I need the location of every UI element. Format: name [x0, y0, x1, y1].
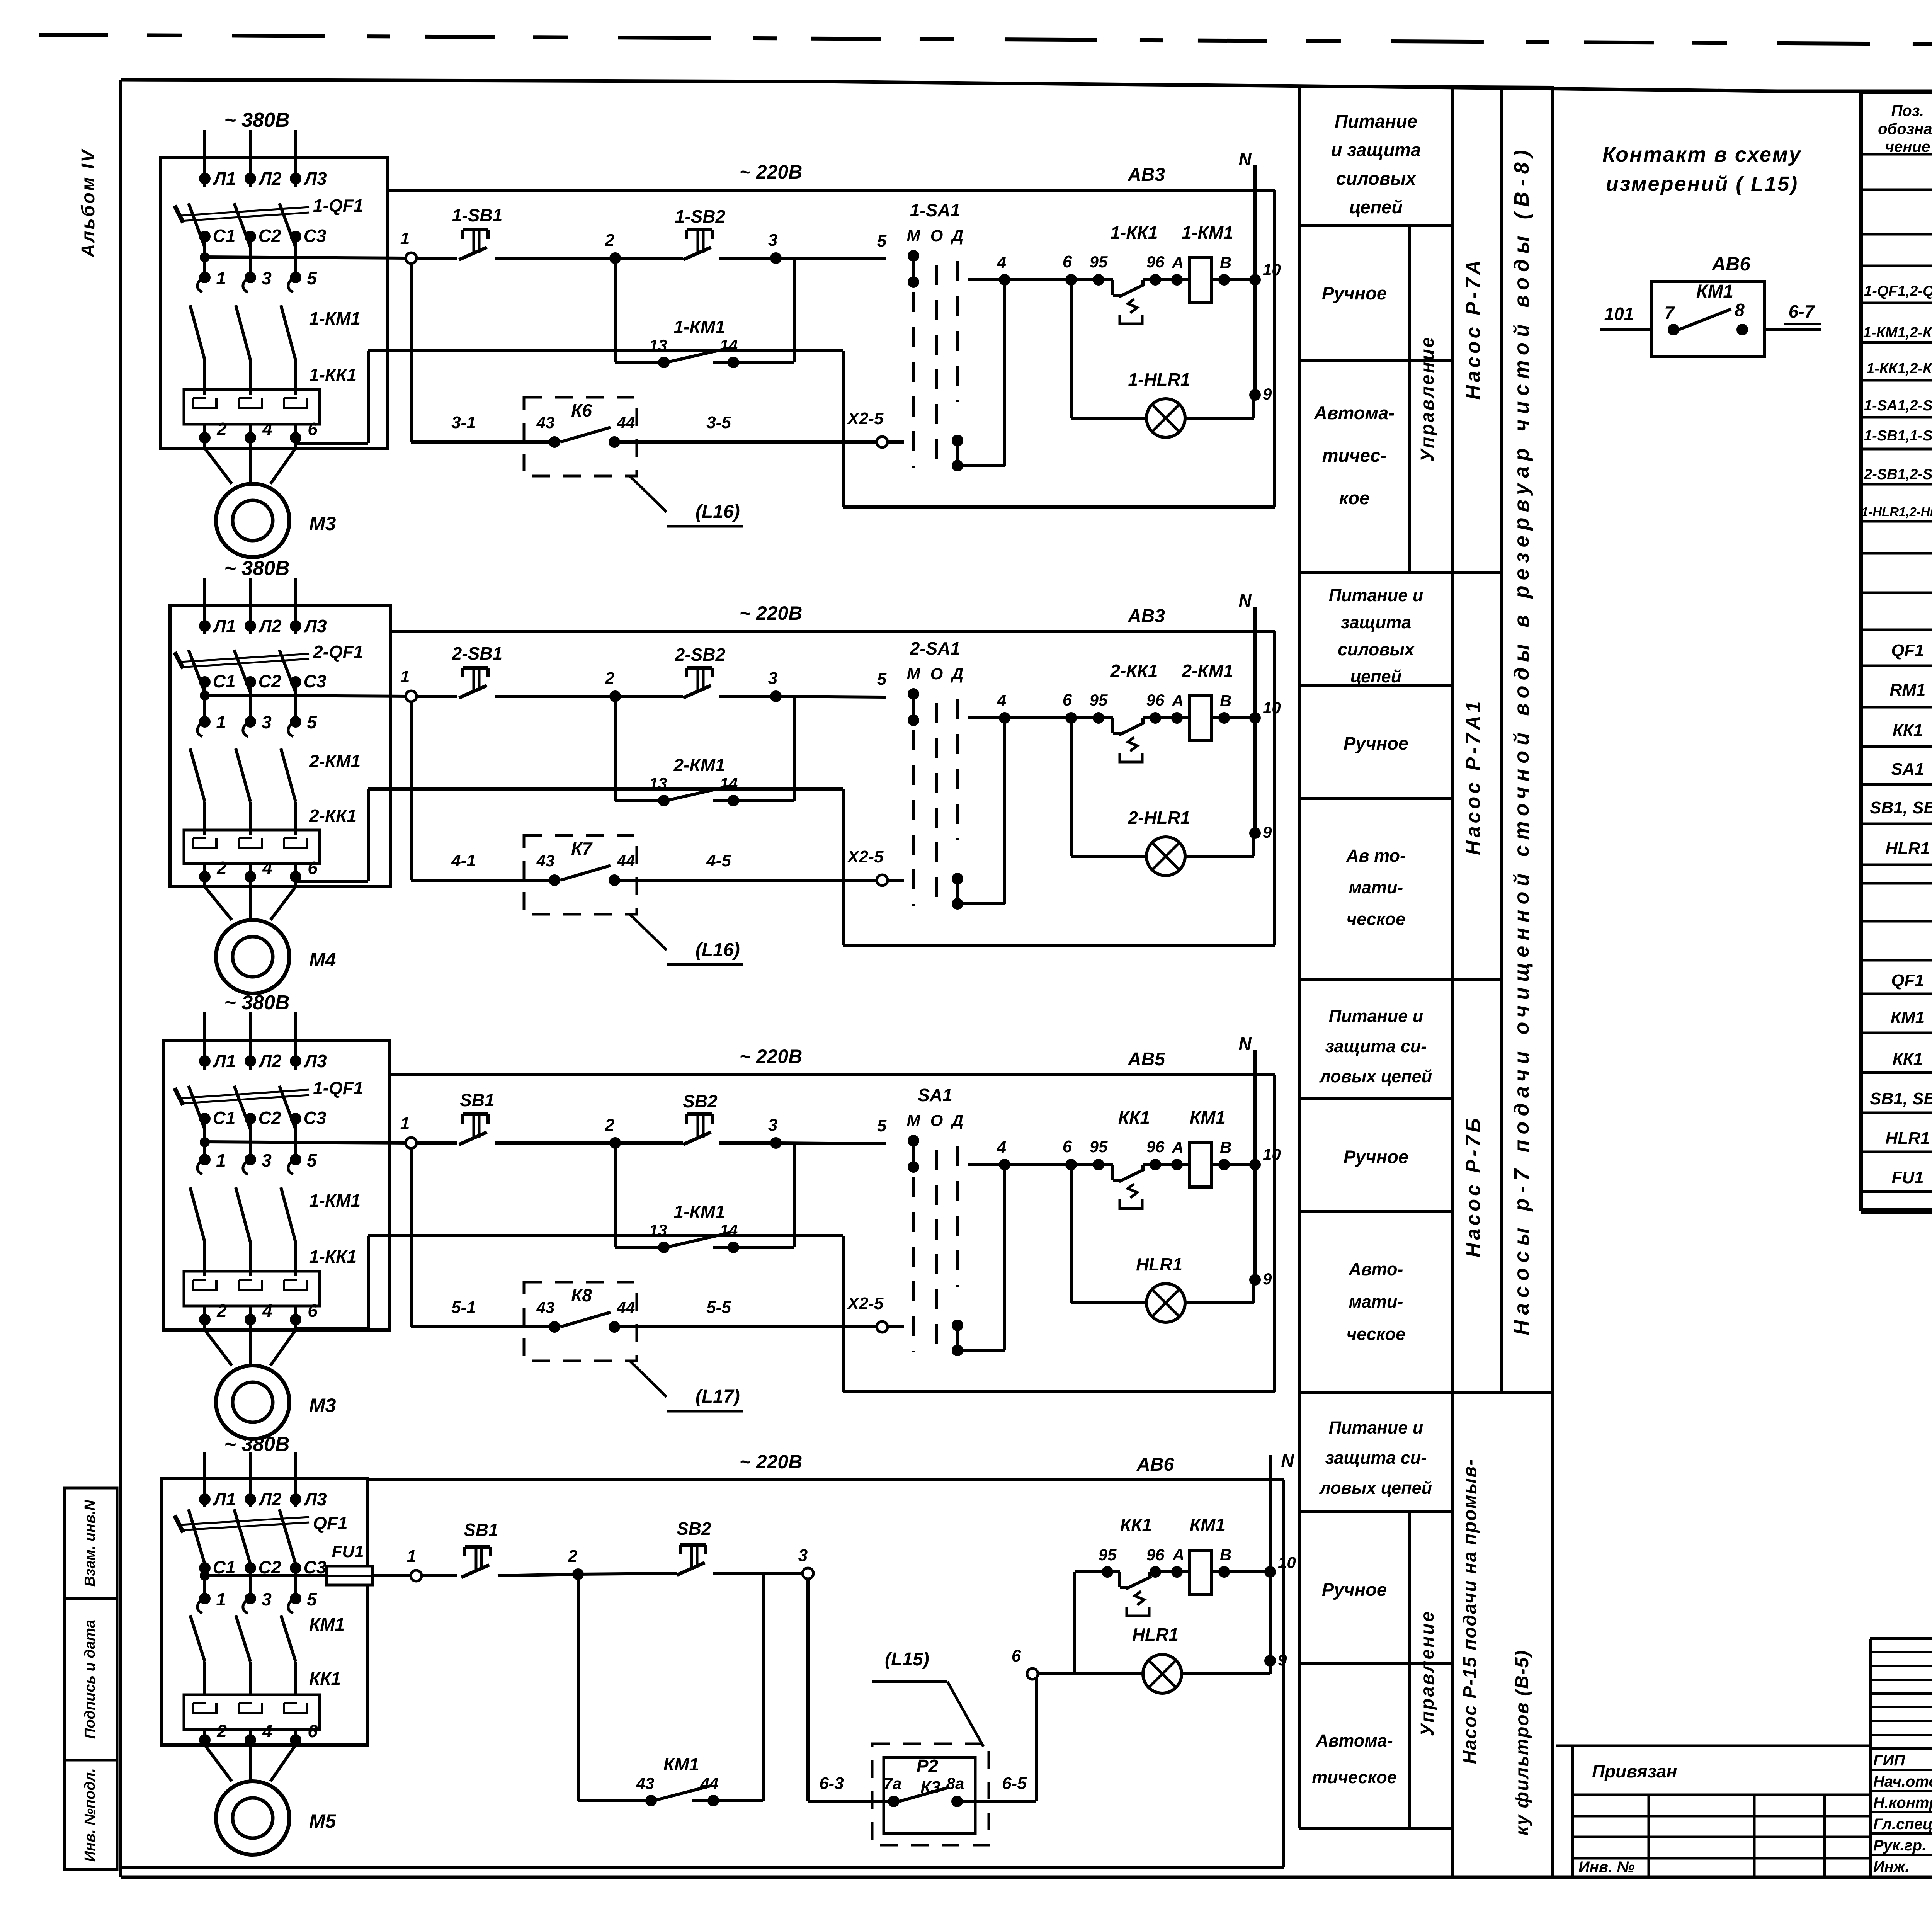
svg-text:2-QF1: 2-QF1	[313, 642, 363, 662]
svg-text:С2: С2	[259, 671, 281, 691]
svg-text:А: А	[1172, 1546, 1184, 1564]
svg-text:ческое: ческое	[1347, 1324, 1405, 1344]
svg-text:3-1: 3-1	[451, 413, 476, 432]
svg-text:К3: К3	[920, 1778, 940, 1797]
svg-text:О: О	[930, 1111, 943, 1129]
svg-text:1-SA1,2-SA1: 1-SA1,2-SA1	[1864, 398, 1932, 414]
svg-text:2: 2	[605, 1116, 615, 1134]
svg-text:Насос Р-7А: Насос Р-7А	[1462, 257, 1485, 400]
svg-text:SB2: SB2	[683, 1091, 718, 1111]
svg-text:FU1: FU1	[1891, 1168, 1923, 1187]
svg-text:Л1: Л1	[213, 1489, 236, 1509]
svg-text:2-КМ1: 2-КМ1	[309, 751, 361, 771]
svg-text:96: 96	[1146, 1546, 1165, 1564]
svg-text:силовых: силовых	[1336, 168, 1417, 189]
svg-text:44: 44	[617, 852, 635, 870]
svg-text:2: 2	[216, 419, 227, 439]
svg-text:~ 380В: ~ 380В	[224, 1433, 289, 1456]
svg-text:измерений ( L15): измерений ( L15)	[1606, 172, 1798, 196]
svg-text:КК1: КК1	[1893, 721, 1923, 740]
svg-text:6: 6	[308, 1301, 318, 1321]
svg-text:Взам. инв.N: Взам. инв.N	[82, 1499, 98, 1587]
svg-text:1-SA1: 1-SA1	[910, 200, 960, 220]
svg-text:9: 9	[1278, 1651, 1287, 1669]
svg-text:Питание: Питание	[1335, 111, 1417, 131]
svg-text:цепей: цепей	[1349, 197, 1403, 217]
svg-text:3: 3	[798, 1546, 808, 1565]
svg-text:Д: Д	[951, 226, 963, 245]
svg-text:2-SB2: 2-SB2	[675, 645, 726, 665]
svg-text:SB1: SB1	[460, 1090, 494, 1110]
svg-text:6: 6	[1063, 1137, 1072, 1156]
svg-text:7: 7	[1664, 303, 1675, 323]
svg-text:Насосы р-7 подачи очищенной: Насосы р-7 подачи очищенной сточной воды…	[1510, 145, 1533, 1335]
svg-text:Питание и: Питание и	[1329, 585, 1423, 605]
svg-text:Гл.спец.: Гл.спец.	[1873, 1816, 1932, 1833]
svg-text:ГИП: ГИП	[1873, 1752, 1905, 1769]
svg-text:SB2: SB2	[677, 1519, 711, 1539]
svg-text:ческое: ческое	[1347, 909, 1405, 929]
svg-text:HLR1: HLR1	[1136, 1254, 1182, 1274]
svg-text:1: 1	[400, 1114, 410, 1133]
svg-text:КМ1: КМ1	[663, 1754, 699, 1774]
svg-text:К7: К7	[571, 838, 593, 859]
svg-text:4-1: 4-1	[451, 851, 476, 870]
svg-text:1-QF1: 1-QF1	[313, 196, 363, 216]
svg-text:Ручное: Ручное	[1344, 733, 1408, 753]
svg-text:14: 14	[720, 1221, 738, 1239]
svg-text:~ 220В: ~ 220В	[740, 1046, 803, 1067]
svg-text:1-КМ1: 1-КМ1	[1182, 223, 1233, 243]
svg-text:RM1: RM1	[1890, 680, 1926, 699]
svg-text:Инж.: Инж.	[1873, 1858, 1910, 1875]
svg-text:Л3: Л3	[303, 1489, 327, 1509]
svg-text:Контакт в схему: Контакт в схему	[1602, 143, 1802, 166]
svg-text:43: 43	[536, 852, 555, 870]
svg-text:Л2: Л2	[258, 1489, 282, 1509]
svg-text:Л2: Л2	[258, 616, 282, 636]
svg-text:Л1: Л1	[213, 168, 236, 189]
svg-text:13: 13	[649, 336, 667, 354]
svg-text:5: 5	[877, 231, 887, 250]
svg-text:1-КМ1: 1-КМ1	[673, 317, 725, 337]
svg-text:С1: С1	[213, 671, 236, 691]
svg-text:КК1: КК1	[309, 1668, 341, 1689]
svg-text:С3: С3	[304, 226, 327, 246]
svg-text:1-HLR1: 1-HLR1	[1128, 369, 1190, 389]
svg-text:В: В	[1220, 692, 1231, 710]
svg-text:(L16): (L16)	[696, 502, 740, 522]
svg-text:HLR1: HLR1	[1886, 839, 1930, 858]
svg-text:силовых: силовых	[1338, 639, 1415, 659]
svg-text:43: 43	[636, 1774, 655, 1793]
svg-text:95: 95	[1099, 1546, 1117, 1564]
svg-text:С3: С3	[304, 671, 327, 691]
svg-text:Автома-: Автома-	[1314, 403, 1395, 423]
svg-text:4: 4	[262, 858, 272, 878]
svg-text:10: 10	[1263, 1145, 1281, 1163]
svg-text:SB1, SB2: SB1, SB2	[1870, 798, 1932, 817]
svg-text:Поз.: Поз.	[1891, 102, 1924, 119]
svg-text:Х2-5: Х2-5	[847, 409, 884, 428]
svg-text:мати-: мати-	[1349, 878, 1403, 897]
svg-text:1-QF1,2-QF1: 1-QF1,2-QF1	[1864, 283, 1932, 299]
svg-text:5: 5	[307, 1589, 317, 1609]
svg-text:Рук.гр.: Рук.гр.	[1873, 1837, 1926, 1854]
svg-text:4: 4	[262, 1301, 272, 1321]
svg-text:ловых цепей: ловых цепей	[1319, 1066, 1432, 1086]
svg-text:QF1: QF1	[1891, 641, 1924, 660]
svg-text:5: 5	[307, 1150, 317, 1170]
svg-text:КК1: КК1	[1893, 1049, 1923, 1068]
svg-text:М3: М3	[309, 513, 336, 534]
svg-text:10: 10	[1263, 699, 1281, 717]
svg-text:4: 4	[262, 419, 272, 439]
svg-text:КМ1: КМ1	[1891, 1008, 1925, 1027]
svg-text:Р2: Р2	[917, 1756, 939, 1776]
svg-text:6-7: 6-7	[1789, 301, 1815, 321]
svg-text:3: 3	[768, 1116, 777, 1134]
svg-text:Нач.отд.: Нач.отд.	[1873, 1773, 1932, 1790]
svg-text:Питание и: Питание и	[1329, 1418, 1423, 1437]
svg-text:6: 6	[1063, 690, 1072, 709]
svg-text:А: А	[1172, 253, 1184, 272]
svg-text:N: N	[1238, 1034, 1252, 1054]
svg-text:Насос Р-7А1: Насос Р-7А1	[1462, 698, 1485, 855]
svg-text:К8: К8	[571, 1285, 592, 1305]
svg-text:К6: К6	[571, 400, 592, 420]
svg-text:2-КМ1: 2-КМ1	[1181, 661, 1233, 681]
svg-text:чение: чение	[1885, 138, 1930, 155]
svg-text:АВ3: АВ3	[1128, 165, 1165, 185]
svg-text:Л1: Л1	[213, 616, 236, 636]
svg-text:4: 4	[997, 1138, 1006, 1157]
svg-text:2: 2	[568, 1547, 578, 1566]
svg-text:8а: 8а	[946, 1774, 964, 1793]
svg-text:Х2-5: Х2-5	[847, 1294, 884, 1313]
svg-text:43: 43	[536, 1298, 555, 1316]
svg-text:тичес-: тичес-	[1322, 445, 1386, 466]
svg-text:7а: 7а	[884, 1774, 902, 1793]
svg-text:Подпись и дата: Подпись и дата	[82, 1620, 98, 1739]
svg-text:3: 3	[262, 1589, 272, 1609]
svg-text:8: 8	[1735, 300, 1745, 320]
svg-text:96: 96	[1146, 1138, 1165, 1156]
svg-text:5-5: 5-5	[706, 1298, 731, 1317]
svg-text:Л3: Л3	[303, 1051, 327, 1071]
svg-text:Насос Р-7Б: Насос Р-7Б	[1462, 1115, 1485, 1257]
svg-text:1-SB1: 1-SB1	[452, 205, 502, 225]
svg-text:2-КМ1: 2-КМ1	[673, 755, 725, 775]
svg-text:3: 3	[768, 669, 777, 688]
svg-text:3-5: 3-5	[706, 413, 731, 432]
svg-text:13: 13	[649, 774, 667, 793]
svg-text:и защита: и защита	[1331, 139, 1421, 160]
svg-text:6-5: 6-5	[1002, 1774, 1027, 1793]
svg-text:~ 220В: ~ 220В	[740, 161, 803, 183]
svg-text:КМ1: КМ1	[1190, 1515, 1225, 1535]
svg-text:6: 6	[308, 858, 318, 878]
svg-text:ловых цепей: ловых цепей	[1319, 1478, 1432, 1498]
svg-text:А: А	[1172, 692, 1184, 710]
svg-text:6: 6	[1063, 252, 1072, 271]
svg-text:1-КМ1: 1-КМ1	[309, 308, 361, 328]
svg-text:Х2-5: Х2-5	[847, 847, 884, 866]
svg-text:~ 380В: ~ 380В	[224, 992, 289, 1014]
svg-text:1-HLR1,2-HLR1: 1-HLR1,2-HLR1	[1861, 505, 1932, 519]
svg-text:Д: Д	[951, 665, 963, 683]
svg-text:С1: С1	[213, 226, 236, 246]
svg-text:10: 10	[1278, 1553, 1296, 1571]
svg-text:С3: С3	[304, 1108, 327, 1128]
svg-text:М: М	[907, 1111, 921, 1129]
svg-text:Ручное: Ручное	[1344, 1146, 1408, 1167]
svg-text:SB1, SB2: SB1, SB2	[1870, 1089, 1932, 1108]
svg-text:Л1: Л1	[213, 1051, 236, 1071]
svg-text:1: 1	[407, 1547, 416, 1566]
svg-text:2-КК1: 2-КК1	[309, 806, 357, 826]
svg-text:ку фильтров (В-5): ку фильтров (В-5)	[1512, 1650, 1532, 1836]
svg-text:101: 101	[1604, 304, 1634, 324]
svg-text:(L17): (L17)	[696, 1386, 740, 1407]
svg-text:В: В	[1220, 1138, 1231, 1156]
svg-text:защита си-: защита си-	[1325, 1448, 1427, 1468]
svg-text:4-5: 4-5	[706, 851, 731, 870]
svg-text:5: 5	[877, 1116, 887, 1135]
svg-text:1-КМ1: 1-КМ1	[673, 1202, 725, 1222]
svg-text:КМ1: КМ1	[1190, 1107, 1225, 1128]
svg-text:М: М	[907, 226, 921, 245]
svg-text:1-КК1: 1-КК1	[309, 365, 357, 385]
svg-text:1: 1	[216, 268, 226, 288]
svg-text:(L16): (L16)	[696, 940, 740, 960]
svg-text:АВ5: АВ5	[1128, 1049, 1165, 1070]
svg-text:1-QF1: 1-QF1	[313, 1078, 363, 1098]
svg-text:Насос Р-15 подачи на промыв: Насос Р-15 подачи на промыв-	[1460, 1459, 1480, 1764]
svg-text:1-КК1,2-КК1: 1-КК1,2-КК1	[1866, 361, 1932, 377]
svg-text:Ручное: Ручное	[1322, 283, 1387, 303]
svg-text:HLR1: HLR1	[1132, 1624, 1179, 1645]
svg-text:мати-: мати-	[1349, 1292, 1403, 1311]
svg-text:5-1: 5-1	[451, 1298, 476, 1317]
svg-text:95: 95	[1090, 1138, 1108, 1156]
svg-text:А: А	[1172, 1138, 1184, 1156]
svg-text:Автома-: Автома-	[1315, 1731, 1393, 1750]
svg-text:1: 1	[216, 1150, 226, 1170]
svg-text:13: 13	[649, 1221, 667, 1239]
svg-text:~ 220В: ~ 220В	[740, 602, 803, 624]
svg-text:4: 4	[997, 253, 1006, 272]
svg-text:96: 96	[1146, 253, 1165, 271]
svg-text:М5: М5	[309, 1810, 337, 1832]
svg-text:Управление: Управление	[1417, 1610, 1438, 1736]
svg-text:HLR1: HLR1	[1886, 1129, 1930, 1148]
svg-text:Питание и: Питание и	[1329, 1006, 1423, 1026]
svg-text:2: 2	[605, 669, 615, 688]
svg-text:Ав то-: Ав то-	[1346, 846, 1406, 866]
svg-text:2: 2	[216, 1301, 227, 1321]
svg-text:обозна-: обозна-	[1878, 121, 1932, 138]
svg-text:5: 5	[877, 670, 887, 689]
svg-text:АВ6: АВ6	[1136, 1454, 1174, 1475]
svg-text:Авто-: Авто-	[1349, 1259, 1403, 1279]
svg-text:АВ3: АВ3	[1128, 606, 1165, 626]
svg-text:(L15): (L15)	[885, 1649, 929, 1670]
svg-text:2: 2	[216, 858, 227, 878]
svg-text:3: 3	[262, 712, 272, 732]
svg-text:защита си-: защита си-	[1325, 1036, 1427, 1056]
svg-text:44: 44	[617, 1298, 635, 1316]
svg-text:1: 1	[400, 229, 410, 248]
svg-text:14: 14	[720, 336, 738, 354]
svg-text:3: 3	[262, 268, 272, 288]
svg-text:М3: М3	[309, 1395, 336, 1416]
svg-text:QF1: QF1	[1891, 971, 1924, 990]
svg-text:АВ6: АВ6	[1711, 253, 1751, 275]
svg-text:С2: С2	[259, 1108, 281, 1128]
svg-text:2-КК1: 2-КК1	[1110, 661, 1158, 681]
svg-text:С1: С1	[213, 1108, 236, 1128]
svg-text:Л2: Л2	[258, 1051, 282, 1071]
svg-text:Л3: Л3	[303, 616, 327, 636]
svg-text:44: 44	[700, 1774, 719, 1793]
svg-text:2-SA1: 2-SA1	[910, 638, 960, 658]
svg-text:4: 4	[262, 1721, 272, 1741]
svg-text:1-SB1,1-SB2: 1-SB1,1-SB2	[1864, 428, 1932, 444]
svg-text:Инв. №: Инв. №	[1578, 1859, 1634, 1876]
svg-text:14: 14	[720, 774, 738, 793]
svg-text:В: В	[1220, 1546, 1231, 1564]
svg-text:1-КК1: 1-КК1	[309, 1247, 357, 1267]
svg-text:1-КК1: 1-КК1	[1110, 223, 1158, 243]
svg-text:тическое: тическое	[1312, 1767, 1397, 1787]
svg-text:С2: С2	[259, 226, 281, 246]
svg-text:Н.контр.: Н.контр.	[1873, 1794, 1932, 1811]
svg-text:6-3: 6-3	[819, 1774, 844, 1793]
svg-text:5: 5	[307, 268, 317, 288]
svg-text:кое: кое	[1339, 488, 1370, 508]
svg-text:Инв. №подл.: Инв. №подл.	[82, 1768, 98, 1862]
svg-text:SA1: SA1	[1891, 760, 1924, 779]
svg-text:2-HLR1: 2-HLR1	[1128, 808, 1190, 828]
svg-text:3: 3	[262, 1150, 272, 1170]
svg-text:95: 95	[1090, 691, 1108, 709]
svg-text:FU1: FU1	[332, 1542, 364, 1561]
svg-text:5: 5	[307, 712, 317, 732]
svg-text:4: 4	[997, 691, 1006, 710]
svg-text:6: 6	[1012, 1646, 1021, 1665]
svg-text:КМ1: КМ1	[1696, 281, 1733, 302]
svg-text:6: 6	[308, 1721, 318, 1741]
svg-text:43: 43	[536, 413, 555, 432]
svg-text:Альбом IV: Альбом IV	[78, 148, 99, 258]
svg-text:9: 9	[1263, 823, 1272, 841]
svg-text:В: В	[1220, 253, 1231, 272]
svg-text:2-SB1: 2-SB1	[452, 643, 502, 663]
svg-text:КК1: КК1	[1118, 1107, 1150, 1128]
svg-text:95: 95	[1090, 253, 1108, 271]
svg-text:10: 10	[1263, 260, 1281, 279]
svg-text:защита: защита	[1341, 612, 1412, 632]
svg-text:Д: Д	[951, 1111, 963, 1129]
svg-text:1-КМ1: 1-КМ1	[309, 1190, 361, 1211]
svg-text:КК1: КК1	[1120, 1515, 1152, 1535]
svg-text:2: 2	[216, 1721, 227, 1741]
svg-text:Ручное: Ручное	[1322, 1579, 1387, 1600]
svg-text:3: 3	[768, 231, 777, 250]
svg-text:1: 1	[216, 712, 226, 732]
svg-text:~ 380В: ~ 380В	[224, 557, 289, 580]
svg-text:9: 9	[1263, 1270, 1272, 1288]
svg-text:QF1: QF1	[313, 1513, 347, 1533]
svg-text:Управление: Управление	[1417, 336, 1438, 462]
svg-text:1-КМ1,2-КМ1: 1-КМ1,2-КМ1	[1863, 325, 1932, 341]
svg-text:О: О	[930, 226, 943, 245]
svg-text:SB1: SB1	[464, 1520, 498, 1540]
svg-text:Л2: Л2	[258, 168, 282, 189]
svg-text:N: N	[1281, 1451, 1294, 1471]
svg-text:96: 96	[1146, 691, 1165, 709]
svg-text:Привязан: Привязан	[1592, 1761, 1677, 1781]
svg-text:цепей: цепей	[1350, 667, 1401, 686]
svg-text:М: М	[907, 665, 921, 683]
svg-text:2: 2	[605, 231, 615, 250]
svg-text:SA1: SA1	[918, 1085, 952, 1105]
svg-text:М4: М4	[309, 949, 336, 971]
svg-text:9: 9	[1263, 385, 1272, 403]
svg-text:1-SB2: 1-SB2	[675, 206, 726, 226]
svg-text:~ 380В: ~ 380В	[224, 109, 289, 131]
svg-text:44: 44	[617, 413, 635, 432]
svg-text:N: N	[1238, 149, 1252, 169]
svg-text:~ 220В: ~ 220В	[740, 1451, 803, 1473]
svg-text:2-SB1,2-SB2: 2-SB1,2-SB2	[1864, 466, 1932, 483]
svg-text:Л3: Л3	[303, 168, 327, 189]
svg-text:1: 1	[400, 667, 410, 686]
svg-text:1: 1	[216, 1589, 226, 1609]
svg-text:О: О	[930, 665, 943, 683]
svg-text:N: N	[1238, 590, 1252, 611]
svg-text:6: 6	[308, 419, 318, 439]
svg-text:КМ1: КМ1	[309, 1614, 345, 1634]
